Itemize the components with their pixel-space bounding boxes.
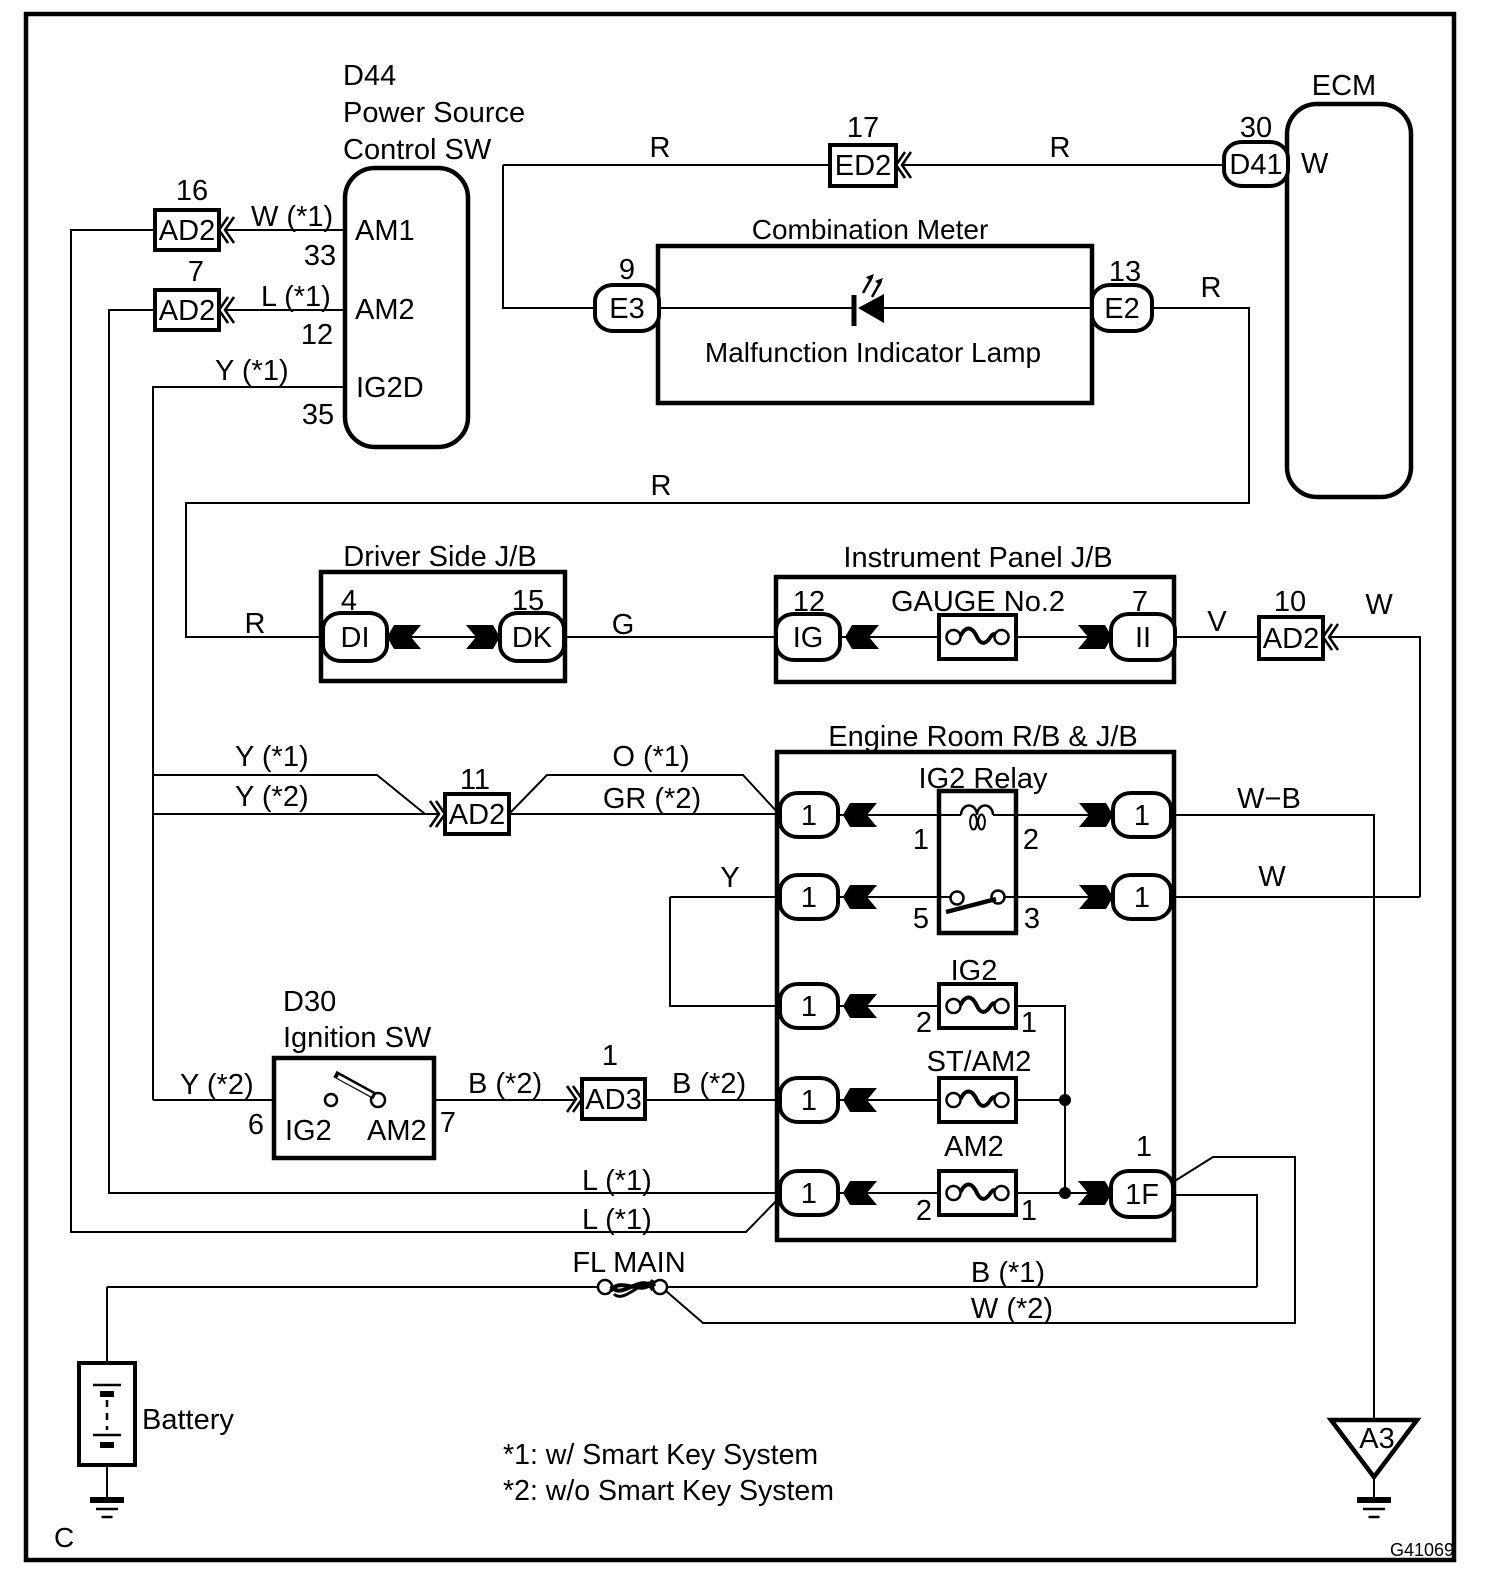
svg-text:33: 33	[304, 240, 336, 272]
svg-text:30: 30	[1240, 112, 1272, 144]
svg-text:B (*2): B (*2)	[672, 1068, 746, 1100]
svg-text:R: R	[650, 132, 671, 164]
svg-text:D41: D41	[1229, 149, 1282, 181]
svg-text:7: 7	[1132, 586, 1148, 618]
svg-text:1: 1	[1134, 882, 1150, 914]
svg-text:Driver Side J/B: Driver Side J/B	[343, 541, 536, 573]
svg-text:W: W	[1301, 148, 1329, 180]
svg-text:L (*1): L (*1)	[261, 281, 331, 313]
svg-text:E3: E3	[609, 293, 644, 325]
svg-text:DI: DI	[341, 622, 370, 654]
svg-text:IG: IG	[793, 622, 824, 654]
svg-text:7: 7	[440, 1107, 456, 1139]
svg-text:*1: w/ Smart Key System: *1: w/ Smart Key System	[503, 1439, 818, 1471]
svg-text:15: 15	[512, 585, 544, 617]
svg-text:1: 1	[1021, 1195, 1037, 1227]
svg-text:R: R	[1201, 272, 1222, 304]
svg-text:W: W	[1258, 861, 1286, 893]
svg-text:G41069: G41069	[1390, 1540, 1454, 1560]
svg-text:10: 10	[1274, 586, 1306, 618]
svg-text:Combination Meter: Combination Meter	[752, 214, 989, 245]
svg-text:AD2: AD2	[1263, 623, 1319, 655]
svg-text:W (*2): W (*2)	[971, 1293, 1053, 1325]
svg-text:AD2: AD2	[159, 215, 215, 247]
svg-text:Engine Room R/B & J/B: Engine Room R/B & J/B	[828, 721, 1137, 753]
svg-text:V: V	[1207, 606, 1227, 638]
svg-text:GR (*2): GR (*2)	[603, 783, 701, 815]
svg-text:3: 3	[1024, 903, 1040, 935]
svg-text:L (*1): L (*1)	[582, 1204, 652, 1236]
svg-text:Ignition SW: Ignition SW	[283, 1022, 432, 1054]
svg-text:2: 2	[1023, 824, 1039, 856]
svg-text:1: 1	[801, 1085, 817, 1117]
svg-text:Y: Y	[720, 862, 739, 894]
svg-text:1: 1	[1136, 1131, 1152, 1163]
svg-text:6: 6	[248, 1109, 264, 1141]
svg-text:II: II	[1135, 622, 1151, 654]
svg-text:GAUGE No.2: GAUGE No.2	[891, 586, 1065, 618]
svg-text:1: 1	[801, 991, 817, 1023]
svg-text:AM2: AM2	[367, 1115, 427, 1147]
svg-text:35: 35	[302, 399, 334, 431]
svg-text:A3: A3	[1359, 1423, 1394, 1455]
svg-text:12: 12	[793, 586, 825, 618]
svg-text:1: 1	[1021, 1007, 1037, 1039]
svg-text:D30: D30	[283, 986, 336, 1018]
svg-text:Malfunction Indicator Lamp: Malfunction Indicator Lamp	[705, 337, 1041, 368]
svg-text:Battery: Battery	[142, 1404, 234, 1436]
svg-text:Y (*1): Y (*1)	[235, 741, 309, 773]
svg-text:R: R	[651, 470, 672, 502]
svg-text:AD2: AD2	[449, 799, 505, 831]
svg-text:B (*1): B (*1)	[971, 1257, 1045, 1289]
svg-text:*2: w/o Smart Key System: *2: w/o Smart Key System	[503, 1475, 834, 1507]
svg-text:FL MAIN: FL MAIN	[572, 1247, 685, 1279]
svg-text:17: 17	[847, 112, 879, 144]
svg-text:13: 13	[1109, 256, 1141, 288]
svg-text:R: R	[245, 608, 266, 640]
svg-text:1: 1	[602, 1040, 618, 1072]
svg-text:ST/AM2: ST/AM2	[927, 1046, 1032, 1078]
svg-text:D44: D44	[343, 60, 396, 92]
svg-text:E2: E2	[1104, 293, 1139, 325]
svg-text:11: 11	[460, 764, 490, 796]
svg-text:AM2: AM2	[944, 1131, 1004, 1163]
svg-text:Y (*2): Y (*2)	[180, 1069, 254, 1101]
svg-text:W (*1): W (*1)	[251, 201, 333, 233]
svg-text:1: 1	[801, 882, 817, 914]
svg-text:1F: 1F	[1125, 1179, 1159, 1211]
svg-text:Y (*2): Y (*2)	[235, 781, 309, 813]
svg-text:AM2: AM2	[355, 294, 415, 326]
svg-text:Y (*1): Y (*1)	[215, 355, 289, 387]
svg-text:12: 12	[301, 319, 333, 351]
svg-text:4: 4	[341, 585, 357, 617]
svg-text:2: 2	[916, 1007, 932, 1039]
svg-text:Power Source: Power Source	[343, 97, 525, 129]
svg-text:O (*1): O (*1)	[612, 741, 689, 773]
svg-text:1: 1	[913, 824, 929, 856]
svg-text:B (*2): B (*2)	[468, 1068, 542, 1100]
svg-text:5: 5	[913, 903, 929, 935]
svg-text:L (*1): L (*1)	[582, 1165, 652, 1197]
svg-text:9: 9	[619, 254, 635, 286]
svg-text:W−B: W−B	[1237, 783, 1301, 815]
svg-text:C: C	[54, 1522, 74, 1553]
svg-text:AD3: AD3	[585, 1084, 641, 1116]
svg-text:W: W	[1365, 589, 1393, 621]
svg-text:IG2D: IG2D	[356, 372, 424, 404]
svg-text:IG2: IG2	[285, 1115, 332, 1147]
svg-text:IG2 Relay: IG2 Relay	[919, 763, 1048, 795]
svg-text:7: 7	[188, 256, 204, 288]
svg-text:1: 1	[1134, 800, 1150, 832]
svg-text:Instrument Panel J/B: Instrument Panel J/B	[843, 542, 1112, 574]
svg-text:1: 1	[801, 800, 817, 832]
svg-text:AM1: AM1	[355, 215, 415, 247]
svg-text:G: G	[612, 609, 635, 641]
svg-text:R: R	[1050, 132, 1071, 164]
svg-text:Control SW: Control SW	[343, 134, 492, 166]
svg-text:1: 1	[801, 1178, 817, 1210]
svg-text:ECM: ECM	[1312, 70, 1376, 102]
svg-text:16: 16	[176, 175, 208, 207]
svg-text:AD2: AD2	[159, 295, 215, 327]
svg-text:DK: DK	[512, 622, 553, 654]
svg-text:ED2: ED2	[835, 150, 891, 182]
svg-text:2: 2	[916, 1195, 932, 1227]
svg-text:IG2: IG2	[951, 955, 998, 987]
